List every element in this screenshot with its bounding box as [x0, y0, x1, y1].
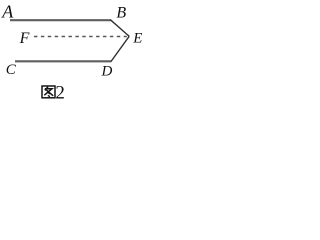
background [0, 0, 143, 103]
wire AB (top line) [10, 19, 111, 21]
svg-text:E: E [132, 31, 142, 47]
wire BE (upper diagonal) [110, 20, 129, 37]
wire FE (dashed line) [34, 36, 127, 38]
wire DE (lower diagonal) [111, 36, 129, 61]
svg-text:F: F [19, 30, 30, 47]
svg-text:D: D [101, 63, 113, 79]
svg-text:2: 2 [55, 83, 65, 103]
svg-text:B: B [116, 5, 126, 22]
caption glyph "图" drawn as strokes [42, 86, 55, 98]
svg-text:C: C [6, 62, 17, 78]
svg-text:A: A [1, 2, 14, 22]
wire CD (bottom line) [15, 60, 111, 62]
